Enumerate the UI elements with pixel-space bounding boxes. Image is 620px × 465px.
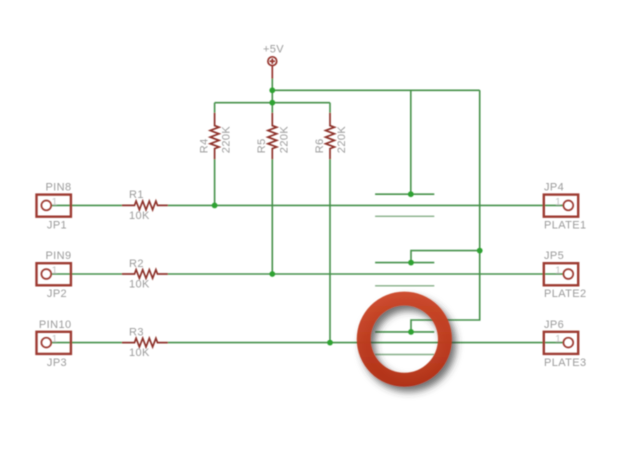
wire R6 column lower bbox=[329, 159, 331, 342]
wire R5 column lower bbox=[271, 159, 273, 274]
svg-text:1: 1 bbox=[555, 334, 561, 345]
plate3 top line bbox=[375, 331, 434, 333]
svg-text:PIN9: PIN9 bbox=[45, 250, 71, 262]
connector JP5 bbox=[544, 263, 578, 285]
svg-text:220K: 220K bbox=[221, 126, 233, 154]
wire R6 column upper bbox=[329, 103, 331, 113]
svg-text:R4: R4 bbox=[198, 138, 210, 153]
svg-text:PLATE3: PLATE3 bbox=[544, 357, 587, 369]
+5V supply symbol bbox=[268, 57, 277, 79]
svg-text:10K: 10K bbox=[129, 278, 150, 290]
svg-text:1: 1 bbox=[52, 265, 58, 276]
plate2 top line bbox=[375, 262, 434, 264]
connector JP1 bbox=[37, 195, 71, 217]
svg-text:1: 1 bbox=[555, 197, 561, 208]
svg-text:10K: 10K bbox=[129, 347, 150, 359]
svg-text:PLATE2: PLATE2 bbox=[544, 288, 587, 300]
node rail1/+5V junction bbox=[269, 87, 275, 93]
wire +5V column down to rails bbox=[271, 79, 273, 113]
svg-text:JP5: JP5 bbox=[544, 250, 564, 262]
connector JP2 bbox=[37, 263, 71, 285]
svg-text:JP2: JP2 bbox=[47, 288, 67, 300]
wire vertical A to plate1 bbox=[410, 90, 412, 194]
svg-text:R1: R1 bbox=[129, 189, 144, 201]
connector JP6 bbox=[544, 332, 578, 354]
svg-text:PIN8: PIN8 bbox=[45, 182, 71, 194]
resistor R3 10K bbox=[122, 338, 168, 347]
node R6 bottom row3 bbox=[327, 340, 333, 346]
resistor R5 220K bbox=[268, 113, 277, 160]
resistor R2 10K bbox=[122, 270, 168, 279]
svg-text:PIN10: PIN10 bbox=[39, 319, 72, 331]
node plate2 connector on B bbox=[477, 248, 483, 254]
wire row3 right segment bbox=[168, 342, 563, 344]
wire row1 right segment bbox=[168, 204, 563, 206]
resistor R1 10K bbox=[122, 201, 168, 210]
node plate3 top bbox=[408, 329, 414, 335]
wire R4 column upper bbox=[214, 103, 216, 113]
svg-text:+5V: +5V bbox=[263, 44, 284, 56]
node R4 bottom row1 bbox=[212, 203, 218, 209]
red highlight ring annotation bbox=[357, 292, 452, 387]
svg-text:1: 1 bbox=[52, 334, 58, 345]
svg-text:1: 1 bbox=[52, 197, 58, 208]
wire vertical B bbox=[411, 90, 480, 332]
svg-text:JP4: JP4 bbox=[544, 182, 564, 194]
svg-text:JP3: JP3 bbox=[47, 357, 67, 369]
svg-text:JP6: JP6 bbox=[544, 319, 564, 331]
wire R4 column lower bbox=[214, 159, 216, 205]
svg-text:10K: 10K bbox=[129, 210, 150, 222]
wire row2 left segment bbox=[51, 273, 122, 275]
plate3 bottom line bbox=[375, 354, 434, 356]
svg-text:R2: R2 bbox=[129, 258, 144, 270]
resistor R6 220K bbox=[326, 113, 335, 160]
plate2 bottom line bbox=[375, 285, 434, 287]
resistor R4 220K bbox=[210, 113, 219, 160]
svg-text:1: 1 bbox=[555, 265, 561, 276]
wire rail1 top bbox=[272, 89, 479, 91]
connector JP3 bbox=[37, 332, 71, 354]
wire plate2 connector bbox=[411, 251, 480, 263]
node plate2 top bbox=[408, 260, 414, 266]
wire row1 left segment bbox=[51, 204, 122, 206]
node plate1 top bbox=[408, 191, 414, 197]
node R5 bottom row2 bbox=[269, 271, 275, 277]
svg-text:R3: R3 bbox=[129, 326, 144, 338]
node rail2/+5V junction bbox=[269, 100, 275, 106]
connector JP4 bbox=[544, 195, 578, 217]
svg-text:PLATE1: PLATE1 bbox=[544, 220, 587, 232]
plate1 bottom line bbox=[375, 215, 434, 217]
svg-text:JP1: JP1 bbox=[47, 220, 67, 232]
plate1 top line bbox=[375, 193, 434, 195]
svg-text:R6: R6 bbox=[314, 138, 326, 153]
svg-text:220K: 220K bbox=[278, 126, 290, 154]
wire rail2 bbox=[215, 102, 330, 104]
svg-text:R5: R5 bbox=[256, 138, 268, 153]
wire row2 right segment bbox=[168, 273, 563, 275]
svg-text:220K: 220K bbox=[336, 126, 348, 154]
wire row3 left segment bbox=[51, 342, 122, 344]
